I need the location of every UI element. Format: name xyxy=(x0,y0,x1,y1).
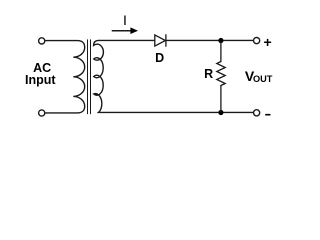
label D (diode) xyxy=(149,52,170,65)
label AC xyxy=(12,62,72,75)
node junction top xyxy=(218,38,223,43)
diode D1 triangle (anode) xyxy=(155,35,166,46)
current arrow head xyxy=(130,27,138,34)
resistor R top lead xyxy=(220,42,222,62)
wire top-left (terminal to primary) + transformer primary coil L1 xyxy=(45,41,84,113)
terminal bottom-left xyxy=(39,110,45,116)
resistor R zigzag body xyxy=(217,62,225,86)
label R (resistor) xyxy=(204,68,213,81)
label OUT subscript xyxy=(253,75,272,84)
diode D1 cathode bar xyxy=(165,35,167,46)
transformer secondary coil L2 + leads to top/bottom rails xyxy=(94,40,254,112)
terminal top-right xyxy=(254,38,260,44)
transformer core line right xyxy=(90,40,92,114)
label Input xyxy=(10,74,70,87)
terminal bottom-right xyxy=(254,110,260,116)
label plus xyxy=(264,35,272,49)
node junction bottom xyxy=(218,110,223,115)
resistor R bottom lead xyxy=(220,86,222,112)
label minus xyxy=(266,114,270,116)
current arrow line xyxy=(112,30,131,32)
label I (current) xyxy=(123,13,127,27)
label VOUT xyxy=(245,69,254,83)
wire diode to top-right terminal xyxy=(166,39,253,41)
terminal top-left xyxy=(39,38,45,44)
transformer core line left xyxy=(87,40,89,114)
